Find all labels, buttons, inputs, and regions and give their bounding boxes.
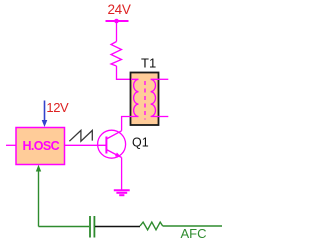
svg-text:12V: 12V bbox=[46, 100, 69, 115]
transformer T1 body bbox=[131, 73, 159, 126]
transistor Q1 base bar bbox=[105, 137, 107, 154]
transformer T1 secondary winding bbox=[151, 79, 159, 116]
T1 secondary top pin stub bbox=[159, 78, 169, 80]
svg-text:H.OSC: H.OSC bbox=[23, 139, 60, 153]
H.OSC left pin stub bbox=[6, 144, 16, 146]
transformer T1 primary winding bbox=[131, 79, 139, 116]
resistor (vertical, collector load) bbox=[111, 42, 122, 67]
sawtooth waveform symbol bbox=[69, 130, 92, 141]
wire resistor to AFC terminal bbox=[163, 225, 222, 227]
transistor Q1 emitter diagonal bbox=[106, 150, 121, 158]
wire 24V rail to resistor R bbox=[116, 21, 118, 42]
svg-text:24V: 24V bbox=[107, 2, 130, 17]
ground symbol bbox=[114, 189, 130, 191]
12V supply arrow (blue, into H.OSC top) bbox=[44, 101, 46, 121]
capacitor (AFC coupling) left plate bbox=[89, 216, 91, 238]
wire H.OSC output to Q1 base bbox=[65, 144, 107, 146]
transformer T1 core (dashed) bbox=[144, 81, 146, 120]
svg-text:AFC: AFC bbox=[181, 226, 207, 241]
wire Q1 emitter to ground bbox=[121, 158, 123, 190]
power rail bar 24V bbox=[106, 20, 129, 22]
svg-text:T1: T1 bbox=[141, 55, 156, 70]
capacitor right plate bbox=[93, 216, 95, 238]
H.OSC block box bbox=[16, 128, 65, 165]
AFC feedback arrow (green, into H.OSC bottom) bbox=[36, 165, 41, 172]
resistor (horizontal, AFC, green) bbox=[140, 222, 163, 230]
wire T1 primary bottom to Q1 collector bbox=[122, 117, 131, 131]
wire feedback bottom run to capacitor bbox=[39, 226, 90, 228]
transistor Q1 collector diagonal bbox=[106, 131, 121, 139]
transistor Q1 emitter arrowhead bbox=[115, 153, 122, 158]
T1 secondary bottom pin stub bbox=[159, 116, 169, 118]
svg-text:Q1: Q1 bbox=[132, 136, 149, 150]
transistor Q1 body circle bbox=[98, 130, 126, 158]
wire capacitor to resistor (black) bbox=[95, 226, 140, 228]
junction dot on 24V rail bbox=[114, 19, 119, 24]
wire resistor to T1 primary top pin bbox=[117, 66, 132, 79]
